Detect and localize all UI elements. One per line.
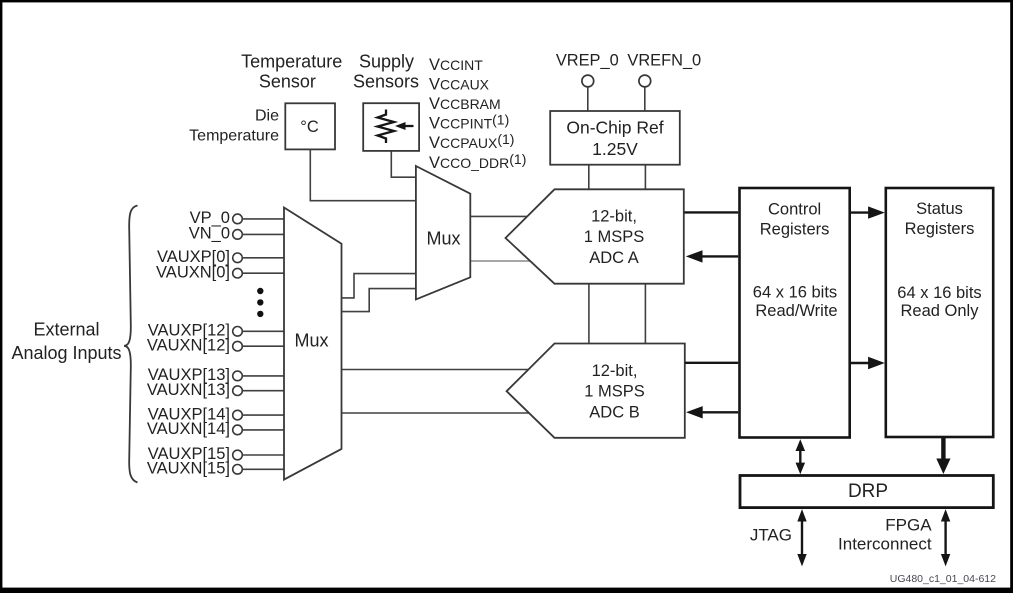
label VAUXN[15] <box>147 460 230 478</box>
wire ADC A to ADC B right <box>644 284 646 344</box>
arrow control registers to ADC B <box>686 406 738 418</box>
svg-text:VREP_0: VREP_0 <box>556 52 619 70</box>
svg-text:UG480_c1_01_04-612: UG480_c1_01_04-612 <box>890 573 996 585</box>
wire VREFN circle to on-chip ref <box>644 87 646 111</box>
label VCCBRAM <box>429 95 501 113</box>
input VAUXN13 circle and wire <box>233 386 285 396</box>
label VAUXN[13] <box>147 381 230 399</box>
svg-text:External: External <box>33 320 99 340</box>
input VAUXN14 circle and wire <box>233 425 285 435</box>
block DRP <box>740 476 993 508</box>
label VAUXP[15] <box>148 445 230 463</box>
terminal VREFP circle <box>582 75 594 87</box>
block ADC A pentagon <box>506 189 684 283</box>
wire VREFP circle to on-chip ref <box>587 87 589 111</box>
curly brace <box>124 206 138 483</box>
label FPGA Interconnect <box>838 515 932 553</box>
arrow control registers to ADC A <box>686 250 738 262</box>
label VCCAUX <box>429 75 490 93</box>
wire supply-sensors to upper mux <box>391 151 416 177</box>
input VAUXN0 circle and wire <box>233 268 285 278</box>
label VAUXN[14] <box>147 420 230 438</box>
label VCCO_DDR <box>429 151 526 172</box>
block ADC B pentagon <box>507 344 685 438</box>
label supply sensors header <box>353 52 419 92</box>
svg-text:VAUXN[13]: VAUXN[13] <box>147 381 230 399</box>
svg-text:ADC A: ADC A <box>589 249 639 267</box>
svg-text:VREFN_0: VREFN_0 <box>627 52 701 70</box>
svg-text:VAUXN[12]: VAUXN[12] <box>147 336 230 354</box>
svg-text:FPGA: FPGA <box>885 515 932 534</box>
input VAUXN12 circle and wire <box>233 341 285 351</box>
svg-text:DRP: DRP <box>848 481 888 502</box>
label VAUXN[0] <box>156 263 230 281</box>
svg-text:Temperature: Temperature <box>189 127 279 144</box>
terminal VREFN circle <box>639 75 651 87</box>
label VREFN_0 <box>627 52 701 70</box>
input VAUXP12 circle and wire <box>233 327 285 337</box>
label die temperature <box>189 107 279 144</box>
wire temp-sensor to upper mux <box>310 149 416 200</box>
svg-text:12-bit,: 12-bit, <box>592 362 638 380</box>
label VCCPAUX <box>429 131 514 152</box>
wire on-chip ref to ADC A left <box>588 165 590 190</box>
input VAUXP13 circle and wire <box>233 371 285 381</box>
supply sensor symbol (variable resistor with arrow) <box>378 110 414 144</box>
block upper mux trapezoid <box>416 166 470 299</box>
svg-text:VAUXN[15]: VAUXN[15] <box>147 460 230 478</box>
input VAUXN15 circle and wire <box>233 465 285 475</box>
svg-text:Temperature: Temperature <box>241 52 342 72</box>
svg-text:JTAG: JTAG <box>750 525 792 544</box>
wire big mux to ADC B lower <box>342 412 531 414</box>
wire on-chip ref to ADC A right <box>644 165 646 190</box>
svg-text:VCCBRAM: VCCBRAM <box>429 95 501 113</box>
label JTAG <box>750 525 792 544</box>
svg-text:Mux: Mux <box>426 229 460 249</box>
double arrow control to DRP <box>796 439 806 474</box>
wire big mux to ADC B upper <box>342 369 530 371</box>
block temperature sensor box <box>285 103 335 149</box>
svg-text:Read/Write: Read/Write <box>755 302 837 320</box>
arrow control to status middle <box>851 357 885 369</box>
thick arrow status to DRP <box>936 438 950 474</box>
svg-text:Status: Status <box>916 200 963 218</box>
label VN_0 <box>189 225 230 243</box>
svg-text:12-bit,: 12-bit, <box>591 208 637 226</box>
svg-text:VN_0: VN_0 <box>189 225 230 243</box>
svg-text:1 MSPS: 1 MSPS <box>584 228 645 246</box>
input VP_0 circle and wire <box>233 214 285 224</box>
double arrow FPGA interconnect <box>941 509 950 566</box>
label UG480 figure tag <box>890 573 996 585</box>
svg-text:°C: °C <box>300 118 319 136</box>
label external analog inputs <box>11 320 121 364</box>
svg-text:Registers: Registers <box>760 221 830 239</box>
label VCCINT <box>429 56 483 74</box>
block status registers <box>886 188 993 437</box>
svg-text:Supply: Supply <box>359 52 414 72</box>
svg-text:On-Chip Ref: On-Chip Ref <box>566 118 663 138</box>
block control registers <box>740 188 850 438</box>
wire ADC A to ADC B left <box>588 284 590 344</box>
svg-text:Control: Control <box>768 201 821 219</box>
svg-text:1.25V: 1.25V <box>592 139 638 159</box>
svg-text:Registers: Registers <box>905 220 975 238</box>
label VREP_0 <box>556 52 619 70</box>
input VAUXP15 circle and wire <box>233 450 285 460</box>
block on-chip ref <box>550 111 680 165</box>
input VAUXP14 circle and wire <box>233 410 285 420</box>
svg-text:Sensor: Sensor <box>259 72 316 92</box>
label temperature sensor header <box>241 52 342 92</box>
input VN_0 circle and wire <box>233 230 285 240</box>
svg-text:64 x 16 bits: 64 x 16 bits <box>753 284 837 302</box>
thick line ADC A to control registers <box>685 211 739 213</box>
thick line ADC B to control registers <box>685 362 738 364</box>
input VAUXP0 circle and wire <box>233 253 285 263</box>
svg-text:Analog Inputs: Analog Inputs <box>11 343 121 363</box>
svg-text:Sensors: Sensors <box>353 72 419 92</box>
svg-text:1 MSPS: 1 MSPS <box>584 383 645 401</box>
label VAUXP[14] <box>148 405 230 423</box>
svg-text:64 x 16 bits: 64 x 16 bits <box>897 284 981 302</box>
label VCCPINT <box>429 112 509 133</box>
wire upper mux to ADC A upper <box>470 215 528 217</box>
ellipsis dots <box>257 288 263 317</box>
label VAUXN[12] <box>147 336 230 354</box>
block big mux trapezoid <box>284 208 342 480</box>
svg-text:Interconnect: Interconnect <box>838 534 932 553</box>
wire big mux step A to upper mux <box>342 274 416 298</box>
svg-text:VCCAUX: VCCAUX <box>429 75 490 93</box>
label VAUXP[0] <box>157 248 230 266</box>
wire big mux step B to upper mux <box>342 289 416 312</box>
label VAUXP[13] <box>148 366 230 384</box>
svg-text:VAUXN[0]: VAUXN[0] <box>156 263 230 281</box>
svg-text:Read Only: Read Only <box>901 302 980 320</box>
svg-text:VCCINT: VCCINT <box>429 56 483 74</box>
svg-text:Mux: Mux <box>294 331 328 351</box>
svg-text:ADC B: ADC B <box>589 404 639 422</box>
label VAUXP[12] <box>148 322 230 340</box>
block supply sensors box <box>363 103 419 151</box>
arrow control to status top <box>851 206 885 218</box>
svg-text:Die: Die <box>255 107 279 124</box>
label VP_0 <box>190 209 230 227</box>
svg-text:VAUXN[14]: VAUXN[14] <box>147 420 230 438</box>
double arrow JTAG <box>797 509 806 566</box>
wire upper mux to ADC A lower <box>470 260 531 262</box>
